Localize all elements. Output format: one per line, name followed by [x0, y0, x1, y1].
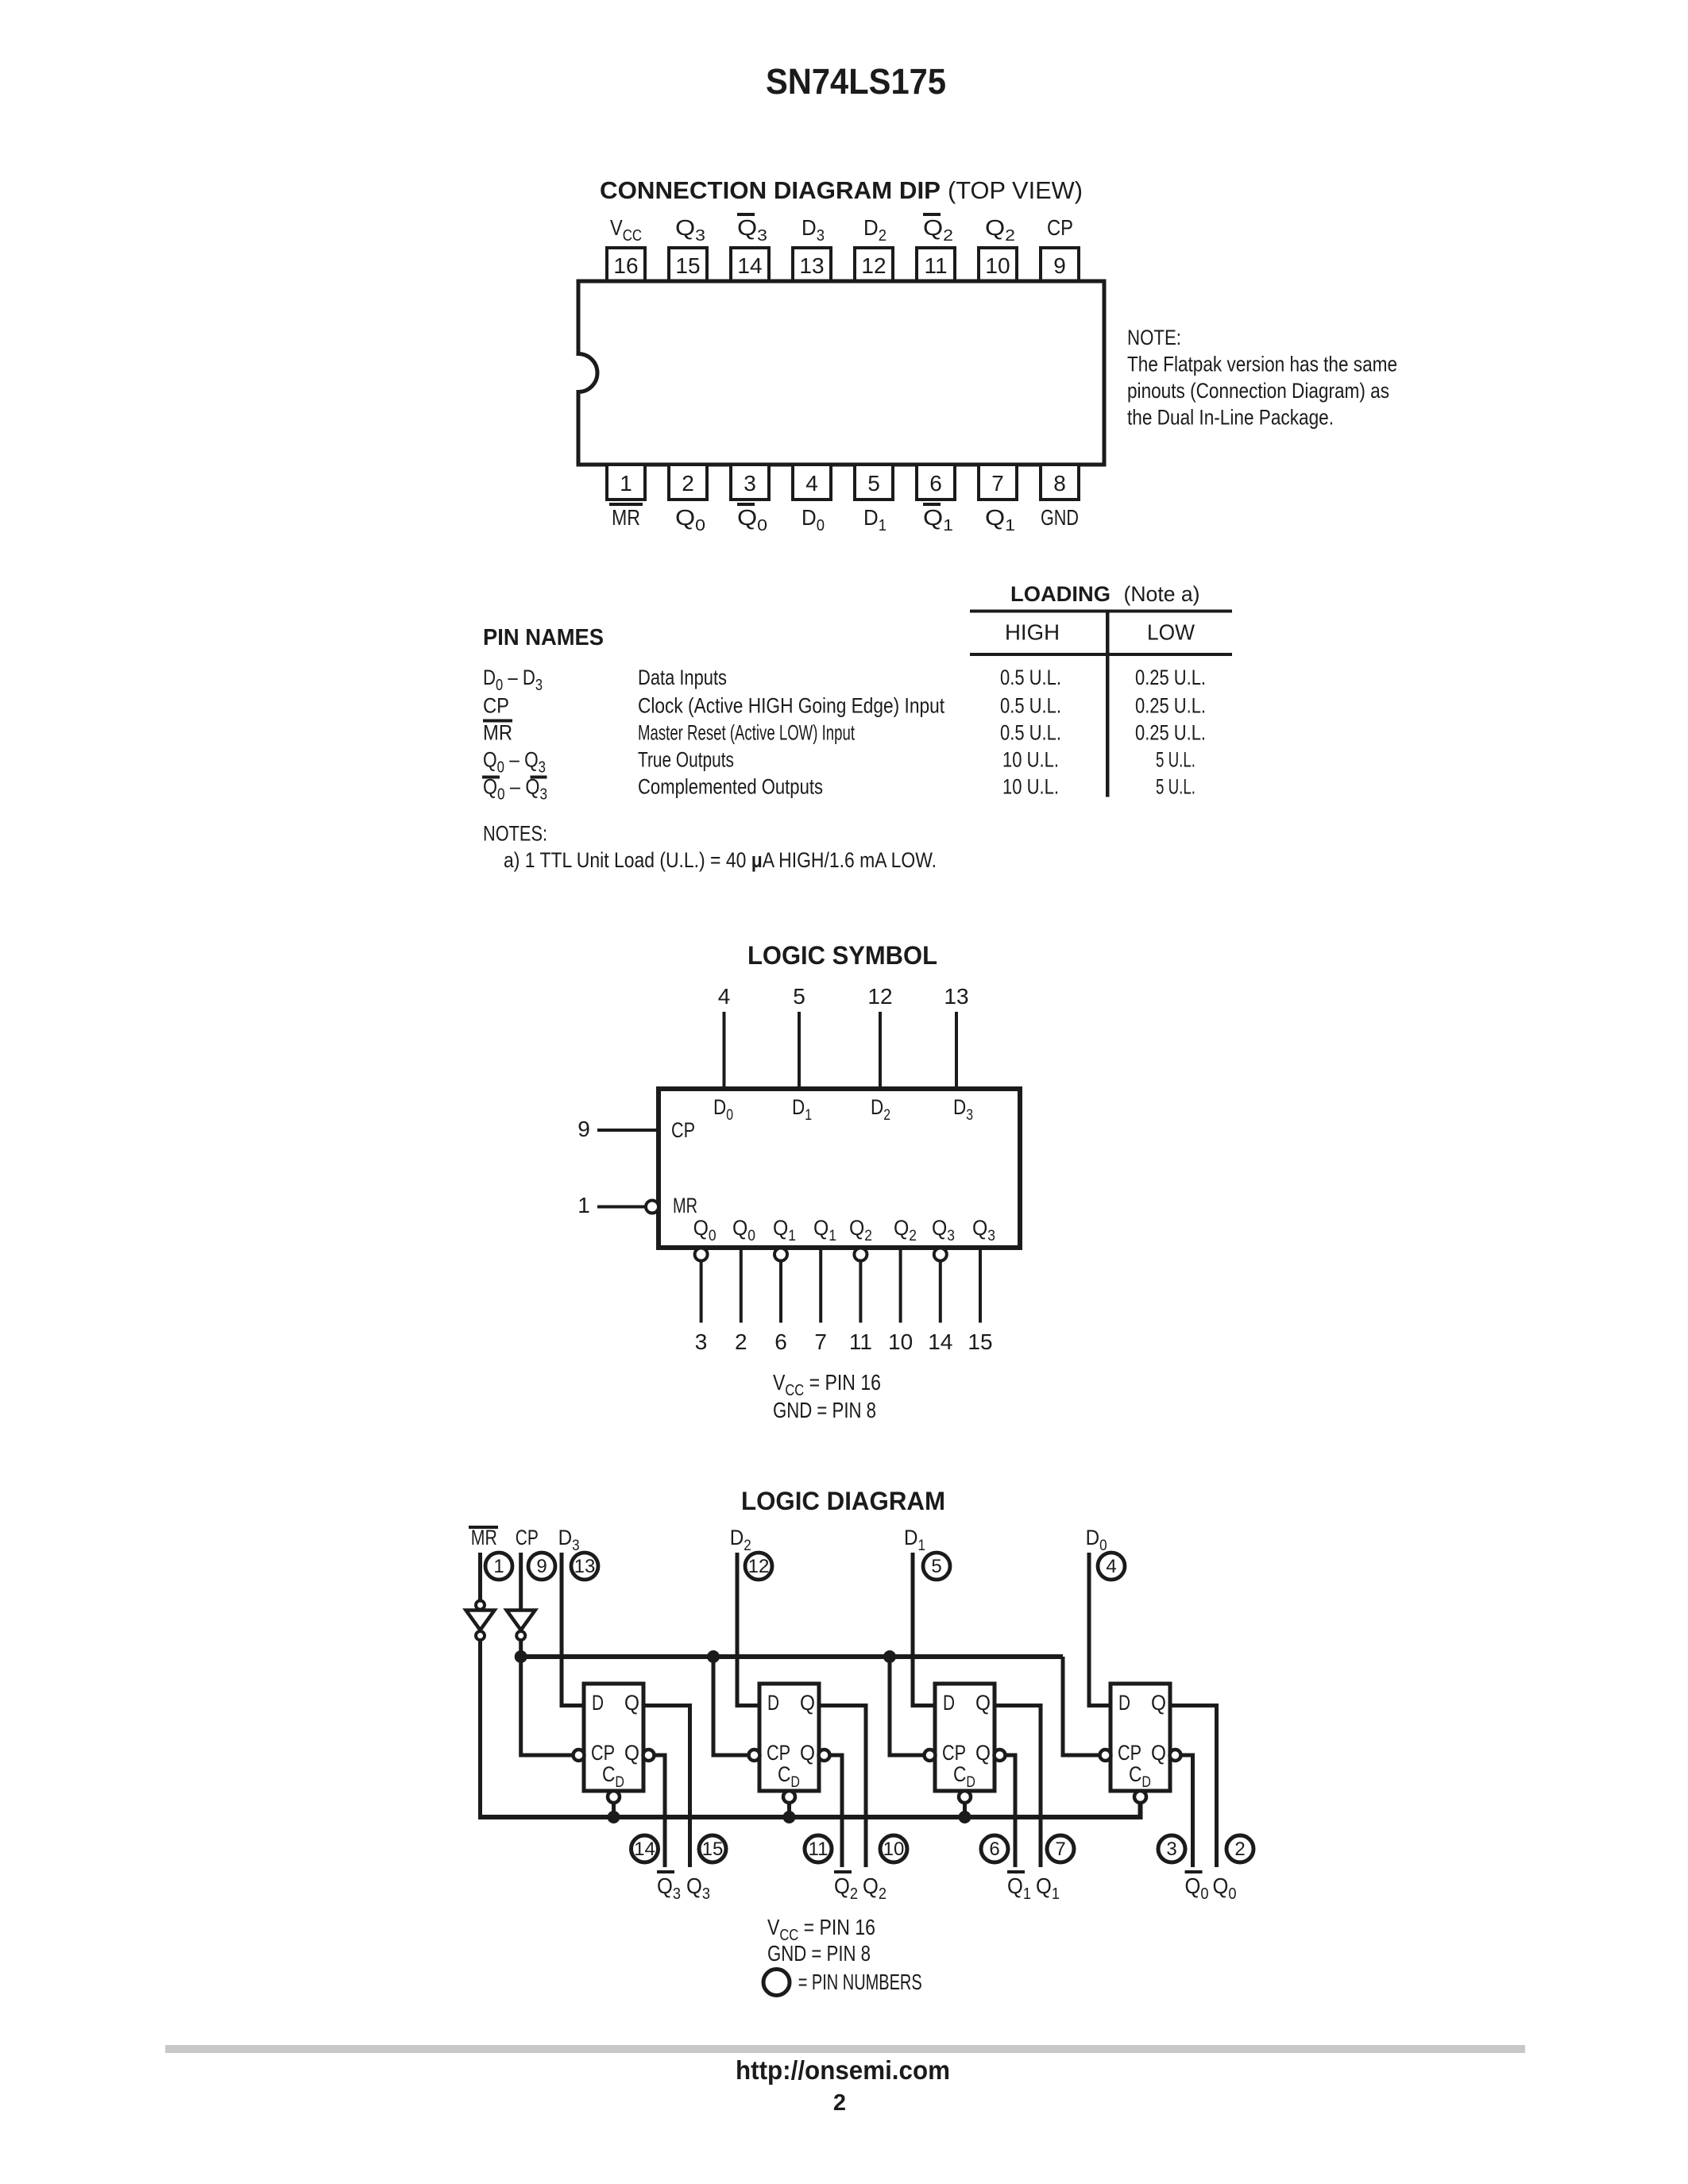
svg-text:D: D: [943, 1691, 955, 1715]
label Q1-bar output: [1007, 1870, 1025, 1873]
svg-text:Master Reset (Active LOW) Inpu: Master Reset (Active LOW) Input: [638, 721, 855, 745]
pin 6 box: [917, 465, 955, 500]
pin 7 box: [979, 465, 1017, 500]
wire FF4 CD stub: [1138, 1803, 1142, 1819]
svg-text:0.25 U.L.: 0.25 U.L.: [1135, 721, 1206, 745]
MR input bubble: [646, 1201, 659, 1214]
pin number circle 10 (output): [880, 1835, 907, 1862]
svg-text:15: 15: [675, 253, 700, 278]
svg-text:5: 5: [867, 471, 880, 496]
pin 14 box: [731, 248, 769, 281]
svg-text:14: 14: [928, 1329, 952, 1354]
svg-text:11: 11: [849, 1329, 872, 1354]
pin number circle 4: [1098, 1553, 1125, 1580]
pin number circle 2 (output): [1226, 1835, 1253, 1862]
svg-text:Q: Q: [800, 1691, 815, 1715]
svg-text:MR: MR: [612, 505, 640, 530]
svg-text:D: D: [767, 1691, 779, 1715]
wire CP vertical to clock rail: [519, 1640, 523, 1657]
footer divider bar: [165, 2045, 1525, 2053]
wire output pin 10: [899, 1248, 902, 1323]
pin 5 box: [855, 465, 893, 500]
junction clock rail A: [515, 1650, 527, 1663]
wire FF3 CD stub: [963, 1803, 967, 1819]
svg-text:Q: Q: [1151, 1741, 1166, 1765]
pin 13 box: [793, 248, 831, 281]
label MR-bar: [469, 1526, 498, 1529]
FF4 Q-bar bubble: [1170, 1750, 1181, 1761]
pin number circle 13: [571, 1553, 598, 1580]
overbars Q0bar-Q3bar row: [482, 776, 500, 779]
svg-text:12: 12: [861, 253, 886, 278]
wire FF1 CD stub: [612, 1803, 616, 1819]
svg-text:LOGIC SYMBOL: LOGIC SYMBOL: [747, 941, 937, 970]
inverter B (CP) output bubble: [516, 1631, 525, 1640]
svg-text:13: 13: [944, 984, 968, 1009]
svg-text:5: 5: [931, 1556, 941, 1577]
FF1 CP bubble: [574, 1750, 585, 1761]
FF1 CD bubble: [608, 1791, 620, 1803]
D flip-flop FF1 (Q3) box: [584, 1684, 643, 1791]
wire MR vertical to reset rail: [478, 1640, 482, 1819]
wire output pin 2: [740, 1248, 743, 1323]
pin 11 label Q2-bar: [923, 213, 941, 216]
junction reset rail FF1: [608, 1811, 620, 1823]
FF2 CD bubble: [783, 1791, 795, 1803]
FF3 CD bubble: [959, 1791, 971, 1803]
wire D2 to FF2: [737, 1553, 762, 1706]
wire master reset rail: [481, 1803, 1141, 1817]
svg-text:7: 7: [991, 471, 1004, 496]
svg-text:7: 7: [814, 1329, 827, 1354]
label Q2-bar output: [834, 1870, 852, 1873]
svg-text:15: 15: [702, 1839, 724, 1860]
svg-text:13: 13: [799, 253, 824, 278]
svg-text:LOGIC DIAGRAM: LOGIC DIAGRAM: [741, 1487, 945, 1515]
FF2 CP bubble: [749, 1750, 760, 1761]
wire output pin 11: [859, 1261, 862, 1323]
note paragraph about Flatpak version: [1127, 326, 1397, 430]
svg-text:Data Inputs: Data Inputs: [638, 666, 727, 689]
pin 15 box: [669, 248, 707, 281]
svg-text:CP: CP: [591, 1741, 615, 1765]
svg-text:6: 6: [774, 1329, 787, 1354]
pin number circle 11 (output): [805, 1835, 832, 1862]
FF4 CD bubble: [1134, 1791, 1146, 1803]
svg-text:LOADING: LOADING: [1010, 582, 1111, 606]
wire MR input: [597, 1206, 646, 1209]
junction clock rail B: [707, 1650, 720, 1663]
svg-text:5: 5: [793, 984, 805, 1009]
svg-text:The Flatpak version has the sa: The Flatpak version has the same: [1127, 353, 1397, 376]
junction reset rail FF3: [959, 1811, 971, 1823]
svg-text:(TOP VIEW): (TOP VIEW): [948, 176, 1083, 204]
wire CP branch to FF2: [713, 1657, 749, 1755]
table row Q0bar-Q3bar: [483, 775, 1196, 804]
svg-text:8: 8: [1053, 471, 1066, 496]
wire output pin 15: [979, 1248, 982, 1323]
wire CP input: [597, 1129, 659, 1132]
wire FF3 Q1 output: [995, 1706, 1041, 1868]
table rule mid: [970, 653, 1232, 656]
pin number circle 6 (output): [981, 1835, 1008, 1862]
wire D1 to FF3: [913, 1553, 937, 1706]
svg-text:GND: GND: [1041, 505, 1079, 530]
svg-text:6: 6: [929, 471, 942, 496]
svg-text:2: 2: [735, 1329, 747, 1354]
pin 12 box: [855, 248, 893, 281]
svg-text:4: 4: [718, 984, 731, 1009]
svg-text:MR: MR: [673, 1194, 697, 1217]
svg-text:Q: Q: [800, 1741, 815, 1765]
pin 9 box: [1041, 248, 1079, 281]
pin 6 label Q1-bar: [923, 503, 941, 506]
wire MR vertical (top): [478, 1553, 482, 1601]
pin 3 label Q0-bar: [737, 503, 755, 506]
svg-text:11: 11: [809, 1839, 829, 1860]
svg-text:10: 10: [985, 253, 1010, 278]
svg-text:CP: CP: [1047, 215, 1073, 240]
pin 1 box: [607, 465, 645, 500]
D flip-flop FF4 (Q0) box: [1111, 1684, 1170, 1791]
wire FF2 CD stub: [787, 1803, 791, 1819]
svg-text:MR: MR: [471, 1526, 497, 1549]
svg-text:6: 6: [989, 1839, 999, 1860]
pin number circle 5: [923, 1553, 950, 1580]
output bubble pin 6: [774, 1248, 787, 1261]
svg-text:NOTES:: NOTES:: [483, 822, 547, 846]
FF1 Q-bar bubble: [643, 1750, 655, 1761]
wire FF1 Q3-bar output: [655, 1755, 666, 1867]
D flip-flop FF2 (Q2) box: [759, 1684, 819, 1791]
svg-text:15: 15: [968, 1329, 992, 1354]
svg-text:1: 1: [493, 1556, 504, 1577]
svg-text:5 U.L.: 5 U.L.: [1156, 775, 1196, 799]
svg-text:4: 4: [1106, 1556, 1116, 1577]
table column divider: [1106, 610, 1110, 797]
wire output pin 7: [819, 1248, 822, 1323]
wire FF4 Q0-bar output: [1181, 1755, 1193, 1867]
svg-text:MR: MR: [483, 721, 512, 745]
svg-text:9: 9: [1053, 253, 1066, 278]
FF3 CP bubble: [925, 1750, 936, 1761]
svg-text:4: 4: [805, 471, 818, 496]
svg-text:12: 12: [867, 984, 892, 1009]
junction reset rail FF2: [783, 1811, 796, 1823]
pin number circle 1: [485, 1553, 512, 1580]
svg-text:0.25 U.L.: 0.25 U.L.: [1135, 666, 1206, 689]
svg-text:Clock (Active HIGH Going Edge): Clock (Active HIGH Going Edge) Input: [638, 694, 944, 718]
wire clock rail: [521, 1654, 1063, 1659]
svg-text:2: 2: [1234, 1839, 1245, 1860]
svg-text:http://onsemi.com: http://onsemi.com: [736, 2055, 950, 2085]
svg-text:the Dual In-Line Package.: the Dual In-Line Package.: [1127, 406, 1334, 430]
table row CP: [483, 694, 1206, 718]
wire output pin 14: [939, 1261, 942, 1323]
inverter A (MR) triangle: [466, 1611, 495, 1630]
svg-text:Q: Q: [975, 1741, 991, 1765]
pin number circle 9: [528, 1553, 555, 1580]
label Q3-bar output: [657, 1870, 674, 1873]
legend pin numbers circle: [763, 1970, 790, 1996]
junction clock rail C: [883, 1650, 896, 1663]
wire input D pin 4: [723, 1012, 726, 1089]
svg-text:D: D: [1118, 1691, 1130, 1715]
svg-text:pinouts (Connection Diagram) a: pinouts (Connection Diagram) as: [1127, 379, 1389, 403]
svg-text:LOW: LOW: [1147, 620, 1196, 645]
FF3 Q-bar bubble: [995, 1750, 1006, 1761]
svg-text:Q: Q: [624, 1741, 639, 1765]
svg-text:CP: CP: [671, 1118, 695, 1142]
pin 11 box: [917, 248, 955, 281]
pin 14 label Q3-bar: [737, 213, 755, 216]
output bubble pin 14: [934, 1248, 947, 1261]
svg-text:3: 3: [1166, 1839, 1176, 1860]
table row MR: [483, 721, 1206, 745]
svg-text:PIN NAMES: PIN NAMES: [483, 625, 604, 650]
output bubble pin 11: [854, 1248, 867, 1261]
wire FF2 Q2 output: [819, 1706, 866, 1868]
wire CP branch to FF4: [1063, 1657, 1100, 1755]
svg-text:1: 1: [577, 1193, 590, 1217]
pin 8 box: [1041, 465, 1079, 500]
svg-text:NOTE:: NOTE:: [1127, 326, 1181, 349]
svg-text:= PIN NUMBERS: = PIN NUMBERS: [798, 1970, 922, 1994]
table row D0-D3: [483, 666, 1206, 694]
pin 4 box: [793, 465, 831, 500]
svg-text:0.5 U.L.: 0.5 U.L.: [1000, 694, 1061, 718]
inverter B (CP) triangle: [507, 1611, 535, 1630]
pin number circle 15 (output): [699, 1835, 726, 1862]
svg-text:D: D: [592, 1691, 604, 1715]
wire CP branch to FF1: [521, 1657, 574, 1755]
wire input D pin 5: [798, 1012, 801, 1089]
pin number circle 7 (output): [1047, 1835, 1074, 1862]
svg-text:9: 9: [577, 1117, 590, 1141]
svg-text:0.25 U.L.: 0.25 U.L.: [1135, 694, 1206, 718]
table row Q0-Q3: [483, 748, 1196, 777]
wire input D pin 12: [879, 1012, 882, 1089]
svg-text:GND = PIN 8: GND = PIN 8: [773, 1398, 876, 1422]
svg-text:10: 10: [883, 1839, 905, 1860]
svg-text:True Outputs: True Outputs: [638, 748, 734, 772]
svg-text:11: 11: [924, 253, 947, 278]
wire D0 to FF4: [1089, 1553, 1113, 1706]
svg-text:1: 1: [620, 471, 632, 496]
D flip-flop FF3 (Q1) box: [935, 1684, 995, 1791]
inverter A (MR) output bubble: [476, 1631, 485, 1640]
svg-text:3: 3: [744, 471, 756, 496]
wire output pin 3: [700, 1261, 703, 1323]
svg-text:10: 10: [888, 1329, 913, 1354]
svg-text:16: 16: [613, 253, 638, 278]
wire FF3 Q1-bar output: [1006, 1755, 1016, 1867]
svg-text:5 U.L.: 5 U.L.: [1156, 748, 1196, 772]
svg-text:GND = PIN 8: GND = PIN 8: [767, 1941, 871, 1966]
wire FF4 Q0 output: [1170, 1706, 1217, 1868]
logic symbol box U1: [659, 1089, 1020, 1248]
wire FF1 Q3 output: [643, 1706, 690, 1868]
svg-text:10 U.L.: 10 U.L.: [1002, 748, 1059, 772]
inverter A (MR) input bubble: [476, 1601, 485, 1610]
svg-text:9: 9: [536, 1556, 547, 1577]
label Q0-bar output: [1185, 1870, 1203, 1873]
wire output pin 6: [779, 1261, 782, 1323]
wire CP vertical (top): [519, 1553, 523, 1611]
wire CP branch to FF3: [890, 1657, 925, 1755]
wire FF2 Q2-bar output: [830, 1755, 843, 1867]
svg-text:2: 2: [833, 2090, 846, 2116]
DIP package body U1 with index notch: [578, 281, 1104, 465]
FF2 Q-bar bubble: [819, 1750, 830, 1761]
table rule top: [970, 610, 1232, 613]
pin number circle 14 (output): [632, 1835, 659, 1862]
svg-text:a) 1 TTL Unit Load (U.L.) = 40: a) 1 TTL Unit Load (U.L.) = 40 μA HIGH/1…: [504, 848, 937, 872]
overbar MR row: [483, 720, 512, 723]
svg-text:CONNECTION DIAGRAM DIP: CONNECTION DIAGRAM DIP: [600, 176, 941, 204]
svg-text:Q: Q: [975, 1691, 991, 1715]
svg-text:CP: CP: [516, 1526, 539, 1549]
svg-text:HIGH: HIGH: [1005, 620, 1060, 645]
svg-text:13: 13: [574, 1556, 596, 1577]
svg-text:14: 14: [634, 1839, 655, 1860]
svg-text:Q: Q: [624, 1691, 639, 1715]
svg-text:(Note a): (Note a): [1124, 582, 1200, 606]
FF4 CP bubble: [1100, 1750, 1111, 1761]
svg-text:10 U.L.: 10 U.L.: [1002, 775, 1059, 799]
svg-text:3: 3: [695, 1329, 708, 1354]
wire D3 to FF1: [562, 1553, 586, 1706]
output bubble pin 3: [695, 1248, 708, 1261]
svg-text:Q: Q: [1151, 1691, 1166, 1715]
svg-text:12: 12: [748, 1556, 770, 1577]
svg-text:CP: CP: [767, 1741, 790, 1765]
svg-text:CP: CP: [1118, 1741, 1141, 1765]
pin 3 box: [731, 465, 769, 500]
pin 10 box: [979, 248, 1017, 281]
wire input D pin 13: [955, 1012, 958, 1089]
pin 1 label MR-bar: [609, 503, 643, 506]
pin number circle 3 (output): [1158, 1835, 1185, 1862]
svg-text:CP: CP: [942, 1741, 966, 1765]
pin 16 box: [607, 248, 645, 281]
svg-text:7: 7: [1055, 1839, 1065, 1860]
svg-text:CP: CP: [483, 694, 509, 718]
pin 2 box: [669, 465, 707, 500]
svg-text:0.5 U.L.: 0.5 U.L.: [1000, 721, 1061, 745]
svg-text:0.5 U.L.: 0.5 U.L.: [1000, 666, 1061, 689]
svg-text:14: 14: [737, 253, 762, 278]
svg-text:SN74LS175: SN74LS175: [766, 61, 946, 102]
pin number circle 12: [745, 1553, 772, 1580]
svg-text:2: 2: [682, 471, 694, 496]
svg-text:Complemented Outputs: Complemented Outputs: [638, 775, 823, 799]
